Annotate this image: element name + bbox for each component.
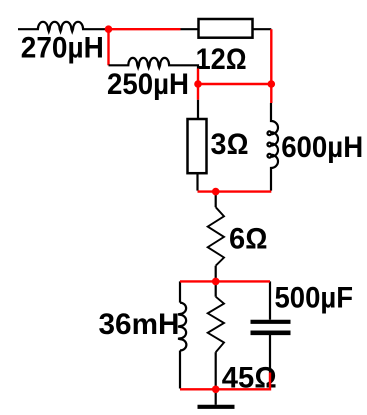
wire: 36mH bottom lead (black) xyxy=(179,351,181,389)
wire red: bottom rail of RLC section xyxy=(180,373,270,390)
wire: 12-ohm left lead (black) xyxy=(181,28,199,30)
wire: 3-ohm bottom lead (black) xyxy=(196,173,198,190)
node A junction dot xyxy=(105,25,113,33)
svg-text:250µH: 250µH xyxy=(107,68,189,101)
wire: 45-ohm bottom lead (black) xyxy=(215,352,217,388)
resistor R1 12-ohm (box) xyxy=(199,19,253,38)
svg-text:500µF: 500µF xyxy=(275,282,354,315)
svg-text:6Ω: 6Ω xyxy=(229,222,268,255)
resistor R3 6-ohm (zigzag) xyxy=(208,207,224,266)
svg-text:3Ω: 3Ω xyxy=(211,128,249,161)
resistor R4 45-ohm (zigzag) xyxy=(208,297,224,353)
wire: 6-ohm top lead (black) xyxy=(215,192,217,208)
wire red: top rail of RLC section xyxy=(180,280,270,282)
wire red: right vertical from top corner through node C to 600uH xyxy=(270,29,272,103)
wire: 6-ohm bottom lead (black) xyxy=(215,266,217,282)
inductor L1 270uH (horizontal coil) xyxy=(18,22,109,32)
svg-text:36mH: 36mH xyxy=(99,308,180,341)
wire: 3-ohm top lead (black) xyxy=(197,100,199,119)
inductor L2 250uH (horizontal coil) xyxy=(109,58,199,69)
wire: capacitor top lead (black) xyxy=(269,281,271,319)
node D junction dot xyxy=(212,188,220,196)
svg-text:270µH: 270µH xyxy=(21,31,104,64)
inductor L4 36mH (vertical coil) xyxy=(178,303,186,351)
capacitor C1 500uF (plates) xyxy=(251,322,291,333)
ground xyxy=(198,405,235,409)
wire: 12-ohm right lead (black) xyxy=(253,28,272,30)
wire: capacitor bottom lead (black) xyxy=(269,335,271,373)
svg-text:600µH: 600µH xyxy=(281,131,363,164)
wire red: node A down to 250uH corner xyxy=(107,29,109,65)
wire: 45-ohm top lead (black) xyxy=(215,281,217,296)
wire red: left vertical from 250uH corner through node B to 3-ohm xyxy=(197,69,199,100)
wire: 36mH top lead (black) xyxy=(179,281,181,302)
node C junction dot xyxy=(268,80,276,88)
inductor L3 600uH (vertical coil) xyxy=(267,103,278,191)
wire red: bottom rail of middle section (node D rail) xyxy=(198,190,272,192)
wire: ground lead (black) xyxy=(215,389,217,405)
svg-text:12Ω: 12Ω xyxy=(196,43,247,76)
wire red: node A to 12-ohm left lead xyxy=(109,28,181,30)
node B junction dot xyxy=(194,80,202,88)
resistor R2 3-ohm (box) xyxy=(188,119,207,173)
node E junction dot xyxy=(212,278,220,286)
wire red: node B to node C horizontal xyxy=(198,83,271,85)
node F junction dot xyxy=(212,386,220,394)
